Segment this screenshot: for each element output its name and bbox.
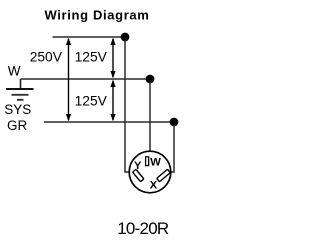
svg-text:10-20R: 10-20R — [117, 219, 169, 238]
junction dot node L1 — [121, 33, 130, 42]
receptacle U1 outline 10-20R — [129, 151, 171, 193]
slot W — [146, 157, 149, 166]
slot X — [157, 169, 171, 181]
wire from node W to receptacle W slot — [149, 82, 151, 152]
svg-text:125V: 125V — [75, 50, 108, 65]
wire neutral middle line — [21, 78, 151, 80]
svg-text:250V: 250V — [30, 50, 63, 65]
slot Y — [133, 169, 144, 181]
svg-text:W: W — [8, 64, 21, 79]
svg-text:SYS: SYS — [4, 102, 31, 117]
svg-text:125V: 125V — [75, 94, 108, 109]
dimension arrow 125V upper — [110, 38, 115, 79]
svg-text:GR: GR — [7, 118, 28, 133]
junction dot node L2 — [170, 118, 179, 127]
wire from node L1 to receptacle Y side — [125, 40, 129, 172]
wire from node L2 to receptacle X side — [171, 125, 174, 172]
junction dot node W — [146, 75, 155, 84]
svg-text:Y: Y — [134, 160, 142, 172]
wire L1 top hot line — [53, 36, 126, 38]
svg-text:X: X — [150, 179, 158, 191]
dimension arrow 125V lower — [110, 80, 115, 122]
svg-text:W: W — [150, 157, 161, 169]
dimension arrow 250V — [66, 38, 71, 122]
wire L2 bottom hot line — [44, 121, 174, 123]
svg-text:Wiring Diagram: Wiring Diagram — [44, 8, 149, 23]
ground — [6, 79, 34, 100]
